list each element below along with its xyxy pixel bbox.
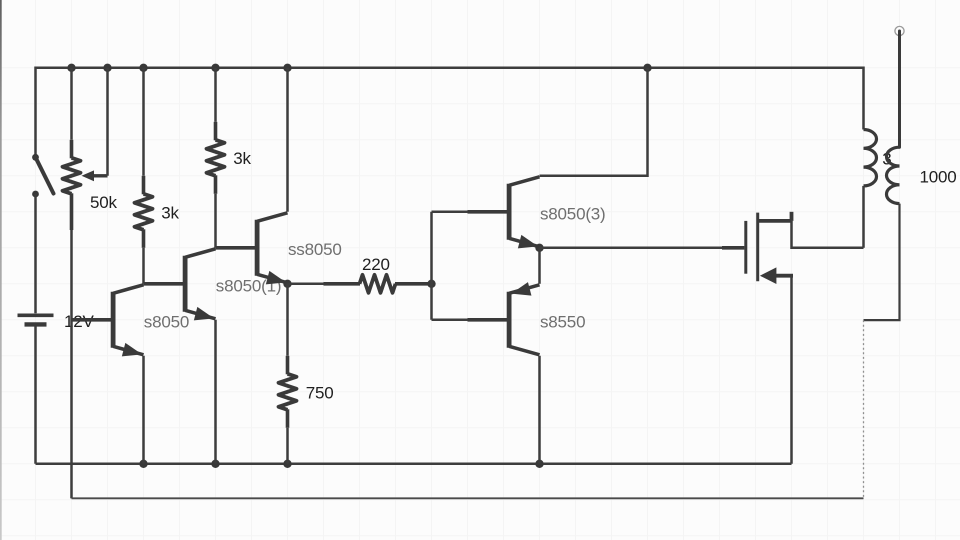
svg-text:1000: 1000: [920, 167, 957, 186]
MOSFET M1 drain terminal stub: [790, 212, 794, 221]
wire: ladder to Q4 base: [432, 211, 468, 214]
svg-text:s8550: s8550: [540, 312, 585, 331]
wire: top rail down to resistor R2: [142, 68, 145, 176]
transformer T1 primary coil: [864, 130, 877, 186]
MOSFET M1 gate bar: [744, 221, 747, 274]
wire: emitter node down to Q5 emitter elbow: [538, 248, 541, 284]
wire: Q1 emitter down to ground rail: [142, 356, 145, 464]
terminal: output port circle: [895, 26, 904, 35]
resistor R5 zigzag body 750: [279, 374, 297, 410]
svg-text:3k: 3k: [161, 203, 179, 222]
junction on ground rail: Q5 collector: [535, 460, 543, 468]
wire: top supply rail with corners down to switch (left) and transformer primary (right): [36, 68, 864, 158]
MOSFET M1 channel bar: [756, 213, 759, 282]
transformer T1 secondary coil: [887, 147, 900, 203]
wire: top rail down to resistor R3: [214, 68, 217, 122]
wire: Q5 collector down to ground rail: [538, 356, 541, 464]
resistor R2 zigzag body 3k: [135, 194, 153, 230]
wire: Q3 collector up to top rail: [286, 68, 289, 212]
wire: Q1 collector node to Q2 base: [144, 283, 147, 286]
svg-text:3k: 3k: [233, 149, 251, 168]
wire: Q2 emitter down to ground rail: [214, 320, 217, 464]
resistor R4 zigzag body 220: [360, 275, 396, 293]
junction: Q3 emitter node: [283, 280, 291, 288]
wire: bottom ground rail from battery to MOSFET source corner: [36, 463, 792, 466]
battery V1 short plate (-): [25, 322, 47, 326]
transistor Q4 s8050(3) (NPN): [468, 210, 508, 214]
wire: base ladder vertical between Q4 and Q5 bases: [430, 212, 433, 320]
resistor R3 zigzag body 3k: [207, 140, 225, 176]
potentiometer R1 wiper arrow: [82, 170, 95, 181]
switch SW1 open blade: [36, 157, 54, 193]
wire: battery minus down to ground rail: [34, 327, 37, 464]
MOSFET M1 gate lead: [722, 246, 744, 250]
transistor Q2 s8050(1) (NPN): [144, 282, 184, 286]
svg-text:220: 220: [362, 255, 390, 274]
wire: port down to secondary coil: [898, 31, 901, 147]
resistor R5 bottom lead: [286, 409, 290, 428]
potentiometer R1 bottom lead: [70, 193, 74, 230]
wire: Q1 base wire from feedback node (under 12V label): [72, 319, 78, 322]
junction on top rail: Q4 collector branch: [643, 64, 651, 72]
junction on ground rail: Q2 emitter: [211, 460, 219, 468]
wire: ladder to Q5 base: [432, 319, 468, 322]
switch SW1 top terminal: [32, 154, 39, 161]
junction on top rail: Q3 collector branch: [283, 64, 291, 72]
potentiometer R1 zigzag body: [63, 158, 81, 194]
wire: drain down/right to transformer primary: [792, 221, 864, 248]
transistor Q1 s8050 (NPN): [72, 318, 112, 322]
transistor Q5 s8550 (PNP): [468, 318, 508, 322]
junction on top rail: pot top: [67, 64, 75, 72]
transistor Q3 ss8050 (NPN): [216, 246, 256, 250]
wire: lower feedback rail back to potentiometer bottom: [72, 497, 864, 499]
MOSFET M1 source tap: [774, 274, 793, 278]
wire: Q3 emitter node down to resistor R5: [286, 284, 289, 356]
junction: Q4 emitter / Q5 emitter node: [535, 244, 543, 252]
wire: MOSFET source down to ground rail corner: [790, 276, 793, 464]
wire: resistor R2 to Q1 collector node: [142, 248, 145, 284]
wire: primary bottom lead down to drain wire: [862, 186, 865, 248]
junction on top rail: resistor 3k R3 branch: [211, 64, 219, 72]
resistor R5 top lead: [286, 356, 290, 375]
junction on ground rail: Q1 emitter: [139, 460, 147, 468]
resistor R3 bottom lead: [214, 175, 218, 194]
wire: switch to battery: [34, 194, 37, 313]
wire: Q3 emitter node to resistor R4: [288, 283, 324, 286]
svg-text:750: 750: [306, 383, 334, 402]
resistor R2 top lead: [142, 176, 146, 195]
MOSFET M1 drain tap: [758, 219, 792, 223]
junction on top rail: resistor 3k R2 branch: [139, 64, 147, 72]
junction on ground rail: resistor 750 bottom: [283, 460, 291, 468]
switch SW1 bottom terminal: [32, 191, 39, 198]
wire: resistor R5 down to ground rail: [286, 428, 289, 464]
battery V1 long plate (+): [18, 313, 54, 317]
potentiometer R1 wiper lead: [93, 174, 108, 177]
resistor R3 top lead: [214, 122, 218, 141]
wire: resistor R3 to Q2 collector node: [214, 194, 217, 248]
svg-text:s8050(3): s8050(3): [540, 204, 606, 223]
resistor R4 right lead: [395, 282, 432, 286]
MOSFET M1 source arrow: [760, 267, 777, 284]
resistor R2 bottom lead: [142, 229, 146, 248]
wire: top rail down to potentiometer: [70, 68, 73, 140]
svg-text:ss8050: ss8050: [288, 240, 342, 259]
svg-text:s8050: s8050: [144, 312, 189, 331]
resistor R4 left lead: [324, 282, 361, 286]
wire: dotted feedback drop to lower rail: [863, 320, 865, 498]
svg-text:50k: 50k: [90, 193, 118, 212]
potentiometer R1 top lead: [70, 140, 74, 159]
junction on top rail: pot wiper branch: [103, 64, 111, 72]
wire: emitter node to MOSFET gate: [540, 247, 723, 250]
junction: R4 output node at Q4/Q5 base ladder: [427, 280, 435, 288]
wire: secondary bottom down then left: [864, 204, 900, 321]
wire: potentiometer bottom down to feedback rail: [70, 230, 73, 498]
wire: Q4 collector right then up to top rail: [540, 68, 648, 176]
wire: wiper up to top rail: [106, 68, 109, 176]
